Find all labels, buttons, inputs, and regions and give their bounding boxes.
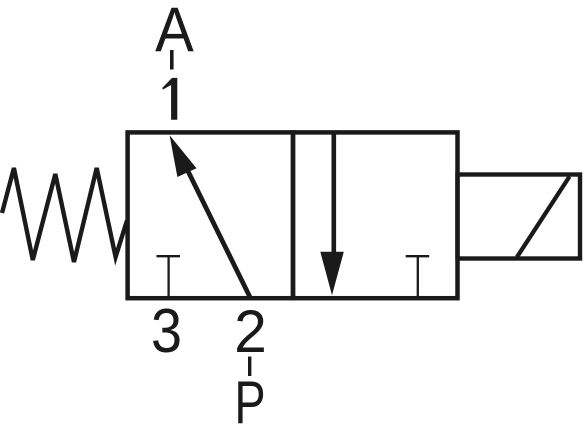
svg-text:3: 3 (151, 297, 182, 365)
wire 2 to P (248, 357, 251, 377)
svg-text:2: 2 (234, 297, 267, 365)
blocked port symbol (T) right square (406, 255, 430, 257)
svg-text:A: A (155, 0, 194, 65)
return spring (2, 168, 127, 262)
flow path arrow (right position) wire (331, 132, 336, 256)
arrowhead down (320, 252, 344, 295)
solenoid coil box (458, 175, 581, 259)
arrowhead to port 1 (170, 135, 197, 177)
blocked port 3 symbol (T) (157, 255, 181, 257)
flow path arrow (left position, 1->2) wire (184, 162, 251, 298)
wire A to 1 (170, 50, 174, 70)
valve body left square (128, 132, 293, 298)
port number 1 (162, 78, 177, 120)
svg-text:P: P (234, 369, 265, 436)
valve body right square (293, 132, 458, 298)
solenoid diagonal (517, 177, 570, 258)
